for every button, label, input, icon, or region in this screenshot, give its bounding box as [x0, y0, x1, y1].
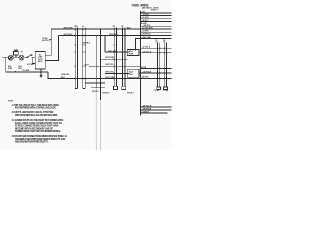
- svg-text:AND WIRE A WHT-ORN THREE GROUP: AND WIRE A WHT-ORN THREE GROUP TABLE TTL…: [15, 138, 66, 141]
- svg-text:NOTE 5: NOTE 5: [103, 93, 110, 95]
- svg-text:+15 VDC: +15 VDC: [141, 17, 149, 19]
- svg-text:+15 RTN A: +15 RTN A: [142, 71, 152, 74]
- svg-text:NOTE 7: NOTE 7: [127, 93, 134, 95]
- svg-text:J1: J1: [82, 26, 84, 28]
- svg-text:GRN-YEL: GRN-YEL: [61, 74, 70, 76]
- svg-text:J4: J4: [163, 40, 165, 43]
- svg-text:+5 VDC RTN: +5 VDC RTN: [142, 28, 153, 30]
- svg-text:+28 RTN A: +28 RTN A: [141, 33, 151, 36]
- svg-text:WHT-GRN: WHT-GRN: [105, 57, 115, 59]
- svg-text:WHT-YEL: WHT-YEL: [105, 72, 114, 74]
- svg-text:EACH-LINED CORD CONNECTIONS TH: EACH-LINED CORD CONNECTIONS THAT GO: [15, 122, 62, 125]
- svg-text:S1 PWR: S1 PWR: [27, 64, 35, 66]
- svg-text:ATTACH CONNECTIONS CABLE THAT: ATTACH CONNECTIONS CABLE THAT HAVE: [15, 125, 59, 128]
- svg-text:BECOME WITH A SECONDARY LINE O: BECOME WITH A SECONDARY LINE OF: [15, 127, 54, 130]
- svg-text:3. LOADER ROUTE VIA THE REAR: 3. LOADER ROUTE VIA THE REAR TRAY WIRING…: [12, 119, 64, 122]
- svg-text:TB1: TB1: [74, 26, 78, 28]
- svg-text:J2: J2: [121, 26, 123, 28]
- svg-text:WHT-GRA: WHT-GRA: [105, 76, 115, 79]
- svg-text:BLK: BLK: [127, 27, 132, 29]
- svg-text:A2J2: A2J2: [129, 70, 133, 73]
- svg-text:A GND B: A GND B: [141, 110, 149, 113]
- svg-text:WHT-BLK: WHT-BLK: [109, 34, 118, 36]
- svg-text:PWR: PWR: [129, 53, 134, 55]
- svg-text:TO A4: TO A4: [163, 89, 168, 92]
- svg-text:CHAS GND: CHAS GND: [141, 36, 151, 39]
- svg-text:J3: J3: [155, 41, 157, 43]
- svg-text:BLK: BLK: [61, 77, 66, 79]
- svg-text:F1: F1: [21, 51, 23, 53]
- svg-text:A RTN: A RTN: [141, 66, 147, 69]
- svg-text:INTO REPAIRED WITH CONTROL AND: INTO REPAIRED WITH CONTROL AND LOGIC: [15, 107, 57, 110]
- svg-text:BLK: BLK: [85, 65, 90, 67]
- svg-text:+28 RTN B: +28 RTN B: [142, 109, 152, 111]
- svg-text:POWER: POWER: [132, 4, 139, 8]
- svg-text:+28 RTN: +28 RTN: [141, 76, 149, 78]
- svg-text:4. FOR LIST AND CONNECTIONS W: 4. FOR LIST AND CONNECTIONS WIRE RATED S…: [12, 135, 68, 138]
- svg-text:(NOTE 3): (NOTE 3): [42, 40, 50, 42]
- svg-text:PWR: PWR: [8, 68, 13, 70]
- svg-text:TO A3: TO A3: [154, 89, 159, 92]
- svg-text:+28 VDC B: +28 VDC B: [142, 106, 152, 108]
- svg-text:+15 VDC A: +15 VDC A: [142, 50, 152, 53]
- svg-text:NOTE 5: NOTE 5: [92, 91, 99, 93]
- svg-text:WHT-VIO: WHT-VIO: [105, 64, 114, 66]
- svg-text:NOTE 8: NOTE 8: [83, 42, 90, 44]
- svg-text:NOTES:: NOTES:: [8, 101, 13, 103]
- svg-text:+5 VDC A: +5 VDC A: [142, 46, 151, 49]
- svg-text:-15 VDC: -15 VDC: [141, 20, 149, 22]
- svg-text:CONNECTIONS THAT CIRCUITS INTE: CONNECTIONS THAT CIRCUITS INTERNATIONAL: [15, 130, 61, 133]
- svg-text:+5 VDC: +5 VDC: [143, 14, 150, 16]
- svg-text:AND GRN A WHT-ORN THREE PAGE T: AND GRN A WHT-ORN THREE PAGE TTL: [15, 140, 49, 143]
- svg-text:WHT-BLU: WHT-BLU: [64, 34, 73, 36]
- svg-text:P2: P2: [113, 26, 115, 28]
- svg-text:+15 RTN: +15 RTN: [141, 31, 149, 33]
- svg-text:ASSY: ASSY: [38, 60, 44, 63]
- svg-text:E1 GND: E1 GND: [23, 70, 30, 72]
- svg-text:SHEET 1: SHEET 1: [151, 10, 158, 12]
- svg-text:WHT-RED: WHT-RED: [108, 51, 117, 53]
- svg-text:WHT-ORN: WHT-ORN: [64, 27, 74, 29]
- svg-text:RTN: RTN: [129, 74, 133, 76]
- svg-text:+28 VDC: +28 VDC: [143, 25, 151, 27]
- svg-text:2. FOR TTL AND SUPPLY LINE AL: 2. FOR TTL AND SUPPLY LINE AL TYPE PWR: [12, 111, 54, 114]
- svg-text:1. FOR THE USE OF P.O.C. THIS: 1. FOR THE USE OF P.O.C. THIS PAGE WAS U…: [12, 104, 60, 107]
- svg-text:WITH GROUNDS SELF-COLOR AND WH: WITH GROUNDS SELF-COLOR AND WHT WIRE: [15, 114, 58, 117]
